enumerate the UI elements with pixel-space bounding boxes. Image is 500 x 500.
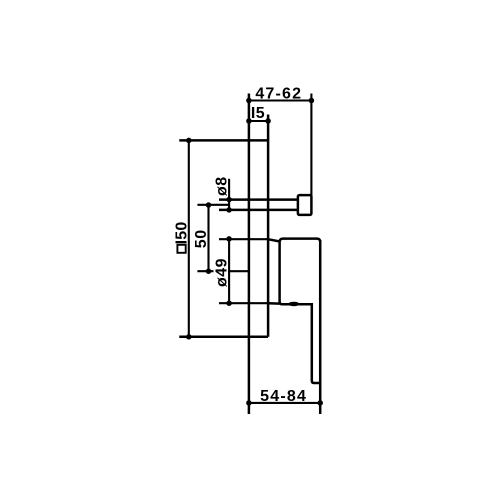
cartridge centerline extension left part (50 bottom)	[197, 270, 213, 272]
mixer body left edge, bottom edge and lever inner edge	[280, 242, 321, 384]
set screw ellipse on body underside	[288, 302, 300, 306]
dim dot 47-62 left	[246, 98, 252, 104]
shower outlet pipe bottom line	[219, 209, 298, 212]
escutcheon plate front face	[267, 115, 270, 337]
cartridge housing top extension line	[219, 238, 268, 240]
dimension line 15	[249, 120, 268, 122]
sleeve taper bottom	[268, 302, 280, 305]
dim dot square-150 bottom	[186, 334, 192, 340]
dim dot diameter-8 top	[226, 197, 232, 203]
dim dot 15 right	[265, 118, 271, 124]
dimension line 47-62	[249, 99, 312, 101]
dimension line 50	[207, 205, 209, 271]
pipe centerline extension (50 top)	[197, 204, 229, 206]
dim dot square-150 top	[186, 138, 192, 144]
sleeve taper top	[268, 239, 280, 241]
svg-text:54-84: 54-84	[260, 388, 307, 405]
dimension line diameter 8	[228, 179, 230, 211]
dim dot 47-62 right	[309, 98, 315, 104]
shower outlet pipe top line	[219, 198, 298, 201]
mixer body top edge with rounded corners	[280, 239, 321, 242]
cartridge centerline extension right part	[228, 270, 249, 272]
dim dot diameter-8 bottom	[226, 207, 232, 213]
dim dot 54-84 left	[246, 400, 252, 406]
cartridge housing bottom extension line	[219, 302, 268, 304]
svg-text:ø8: ø8	[214, 176, 231, 196]
dim dot 50 top	[206, 202, 212, 208]
dim dot 54-84 right	[317, 400, 323, 406]
dimension line diameter 49	[228, 239, 230, 303]
wall surface line	[248, 94, 251, 415]
escutcheon plate bottom edge	[179, 336, 268, 339]
47-62 right extension line to pipe fitting	[310, 94, 312, 197]
square-150 dimension line	[188, 140, 190, 336]
svg-text:ø49: ø49	[214, 258, 231, 287]
svg-text:47-62: 47-62	[255, 86, 302, 103]
escutcheon plate top edge	[179, 139, 268, 142]
dim dot diameter-49 bottom	[226, 300, 232, 306]
dim dot 15 left	[246, 118, 252, 124]
dim dot 50 bottom	[206, 268, 212, 274]
dim dot diameter-49 top	[226, 236, 232, 242]
outlet pipe end fitting rectangle	[298, 195, 312, 215]
square symbol of label 150	[177, 245, 185, 253]
lever outer edge and 54-84 right extension	[319, 240, 322, 414]
dimension line 54-84	[249, 402, 320, 404]
svg-text:50: 50	[193, 229, 210, 248]
svg-text:I50: I50	[173, 222, 190, 245]
svg-text:I5: I5	[251, 105, 265, 122]
